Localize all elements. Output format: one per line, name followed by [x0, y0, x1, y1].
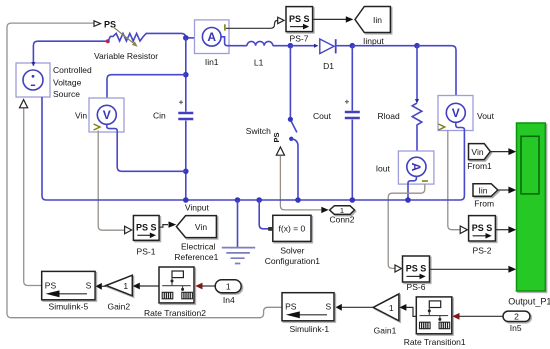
svg-text:PS-6: PS-6: [407, 282, 426, 292]
arrowhead Gain2 into Simulink-5: [96, 283, 102, 290]
svg-text:S: S: [86, 281, 92, 291]
wire bottom bus: [42, 97, 464, 200]
arrowhead RT2 into Gain2: [133, 283, 140, 290]
voltage sensor Vin: [89, 98, 124, 132]
label Switch: [246, 126, 271, 136]
wire L1 to switch node: [273, 45, 291, 47]
controlled voltage source U1 box: [16, 63, 50, 97]
label + polarity Cin: [179, 100, 183, 104]
label Vout: [477, 111, 495, 121]
wire Iinput node to Rload node: [352, 45, 417, 47]
rate transition Rate Transition1: [416, 297, 452, 334]
arrowhead From1 into scope: [508, 148, 516, 155]
converter PS-1: [133, 216, 159, 241]
svg-text:Rload: Rload: [378, 111, 400, 121]
wire Rload top: [416, 46, 418, 102]
label + polarity Cout: [345, 100, 349, 104]
capacitor Cout plates: [345, 112, 360, 118]
svg-text:PS: PS: [272, 132, 281, 142]
svg-text:S: S: [326, 302, 332, 312]
port Conn2: [330, 206, 355, 215]
capacitor Cin wire lower: [185, 121, 187, 200]
junction node Rload top: [414, 43, 420, 49]
arrow into CVS top: [31, 62, 35, 66]
wire Vin sensor bottom to Cin node: [107, 125, 186, 172]
svg-text:PS S: PS S: [406, 263, 427, 273]
ground Electrical Reference1: [222, 200, 255, 264]
resistor Rload zigzag: [412, 103, 422, 155]
arrow variable-resistor adjustment (diagonal): [113, 27, 138, 47]
label In4: [223, 295, 235, 305]
arrowhead into Conn2: [321, 207, 328, 213]
svg-text:Reference1: Reference1: [174, 252, 218, 262]
label PS-1: [137, 247, 156, 257]
port triangle PS input of Variable Resistor: [94, 21, 101, 27]
label Cin: [153, 111, 166, 121]
svg-text:PS S: PS S: [136, 223, 157, 233]
wire switch node to diode: [290, 45, 314, 47]
wire PS-6 to scope: [430, 268, 509, 270]
svg-text:From: From: [474, 199, 494, 209]
label Iinput: [363, 36, 384, 46]
voltage sensor Vout: [438, 96, 473, 131]
diode D1: [320, 39, 336, 54]
junction dot bus solver: [256, 197, 262, 203]
inductor L1: [247, 41, 273, 45]
svg-text:L1: L1: [254, 58, 264, 68]
current sensor Iout: [398, 151, 434, 184]
label Electrical Reference1: [174, 242, 218, 263]
svg-text:Variable Resistor: Variable Resistor: [94, 51, 158, 61]
svg-text:PS S: PS S: [472, 223, 493, 233]
wire Gain2 to Simulink-5: [102, 285, 107, 287]
label Gain2: [107, 302, 130, 312]
svg-text:Controlled: Controlled: [53, 65, 92, 75]
label Vinput: [185, 203, 210, 213]
block Simulink-1: [282, 293, 334, 321]
capacitor Cout wire upper: [351, 46, 353, 111]
port triangle PS input of PS-7: [278, 17, 284, 23]
label PS-7: [290, 33, 309, 43]
wire Vin measurement to PS-1: [98, 131, 124, 231]
svg-text:A: A: [207, 30, 216, 44]
wire From1 to scope: [490, 151, 508, 153]
goto tag Vin: [176, 216, 216, 238]
wire From to scope: [498, 189, 509, 191]
svg-text:Cout: Cout: [313, 111, 332, 121]
wire ammeter measurement to PS-7: [226, 20, 278, 28]
svg-text:Iin: Iin: [373, 15, 382, 25]
wire Iout bottom to bus: [408, 176, 416, 200]
label Rate Transition1: [404, 337, 466, 347]
wire Vin sensor top tap: [107, 75, 186, 103]
switch SW vertical wire: [289, 46, 291, 118]
wire switch PS to Conn2: [280, 156, 321, 210]
svg-text:A: A: [409, 163, 423, 172]
junction dot bus Vinput: [183, 197, 189, 203]
scope Output_P1: [517, 123, 546, 291]
gain Gain1: [373, 294, 399, 321]
label Output_P1: [508, 297, 550, 307]
junction node Iinput / Cout: [350, 43, 356, 49]
svg-text:1: 1: [226, 282, 231, 292]
svg-text:Vin: Vin: [75, 111, 87, 121]
goto tag Iin: [355, 7, 390, 33]
label In5: [510, 323, 522, 333]
svg-text:Simulink-5: Simulink-5: [49, 301, 89, 311]
label Controlled Voltage Source: [53, 65, 92, 99]
svg-text:Vout: Vout: [477, 111, 495, 121]
capacitor Cin wire upper: [185, 38, 187, 112]
svg-text:Vinput: Vinput: [185, 203, 210, 213]
node red marker variable resistor terminal: [106, 39, 110, 43]
svg-text:Voltage: Voltage: [53, 78, 82, 88]
svg-text:In5: In5: [510, 323, 522, 333]
label PS (switch port, rotated): [272, 132, 281, 142]
port triangle PS input of PS-2: [460, 226, 467, 234]
arrowhead into Vin goto: [169, 221, 177, 227]
arrowhead From into scope: [508, 187, 516, 194]
label Cout: [313, 111, 332, 121]
wire solver to bus: [259, 200, 269, 229]
svg-text:PS S: PS S: [289, 14, 310, 24]
svg-text:Electrical: Electrical: [181, 242, 216, 252]
inport In5: [503, 311, 530, 322]
label Simulink-5: [49, 301, 89, 311]
wire RT1 to Gain1: [406, 307, 416, 316]
wire PS feedback Simulink-1 to Variable Resistor (left/bottom routing): [7, 23, 282, 318]
arrowhead PS-6 into scope: [508, 266, 516, 273]
wire Vout measurement to PS-2: [448, 131, 460, 230]
svg-text:1: 1: [123, 281, 128, 291]
label Simulink-1: [289, 324, 329, 334]
port triangle PS input of PS-6: [395, 265, 402, 272]
wire Gain1 to Simulink-1: [342, 306, 374, 308]
arrowhead PS-2 into scope: [508, 226, 516, 233]
wire ammeter to L1: [229, 45, 247, 47]
svg-text:Source: Source: [53, 89, 80, 99]
junction dot bus switch: [295, 197, 301, 203]
svg-text:PS: PS: [285, 302, 297, 312]
svg-text:Cin: Cin: [153, 111, 166, 121]
junction dot at resistor/ammeter/Cin: [183, 35, 189, 41]
label PS-6: [407, 282, 426, 292]
svg-text:Configuration1: Configuration1: [265, 256, 321, 266]
svg-text:PS-1: PS-1: [137, 247, 156, 257]
wire Iout measurement to PS-6: [388, 184, 425, 268]
wire In5 to RT1: [459, 315, 503, 317]
arrow into ammeter: [198, 36, 203, 40]
label Rload: [378, 111, 400, 121]
gain Gain2: [106, 275, 132, 296]
junction dot Vin-bottom tap: [183, 169, 189, 175]
resistor Variable Resistor zigzag: [108, 33, 186, 41]
svg-text:Simulink-1: Simulink-1: [289, 324, 329, 334]
wire PS-2 to scope: [495, 229, 508, 231]
svg-text:Iout: Iout: [376, 164, 391, 174]
wire PS-7 to Iin goto: [313, 18, 346, 20]
svg-text:PS: PS: [45, 281, 57, 291]
current sensor Iin1: [195, 20, 230, 54]
svg-text:Rate Transition2: Rate Transition2: [144, 308, 206, 318]
rate transition Rate Transition2: [159, 267, 194, 303]
junction dot bus ground: [235, 197, 241, 203]
label From1: [467, 161, 492, 171]
svg-text:f(x) = 0: f(x) = 0: [279, 224, 306, 234]
wire PS Simulink-5 to Controlled Voltage Source: [24, 108, 42, 285]
arrowhead RT1 into Gain1: [399, 304, 406, 311]
arrowhead In4 into RT2: [195, 283, 202, 290]
wire switch to bottom bus: [291, 139, 298, 200]
port triangle PS input of CVS: [20, 100, 28, 108]
converter PS-6: [403, 256, 430, 282]
wire CVS top to variable resistor: [33, 41, 107, 65]
junction node switch top: [288, 43, 294, 49]
svg-text:PS-2: PS-2: [473, 245, 492, 255]
arrow into Rload: [415, 99, 419, 103]
svg-text:1: 1: [389, 303, 394, 313]
svg-text:D1: D1: [323, 61, 334, 71]
port triangle PS input of switch: [276, 147, 284, 155]
port triangle PS input of PS-1: [125, 226, 132, 234]
label Rate Transition2: [144, 308, 206, 318]
label Gain1: [374, 326, 397, 336]
label L1: [254, 58, 264, 68]
arrow into Vin top: [105, 99, 109, 103]
svg-text:Gain1: Gain1: [374, 326, 397, 336]
converter PS-2: [469, 216, 496, 241]
label Solver Configuration1: [265, 246, 321, 266]
arrowhead Gain1 into Simulink-1: [336, 304, 342, 311]
arrowhead In5 into RT1: [452, 313, 459, 320]
inport In4: [215, 280, 241, 293]
label From: [474, 199, 494, 209]
svg-text:Vin: Vin: [195, 222, 207, 232]
wire node to ammeter input: [186, 37, 201, 39]
wire PS-1 to Vin goto: [159, 225, 168, 228]
svg-text:In4: In4: [223, 295, 235, 305]
wire In4 to RT2: [202, 285, 215, 287]
svg-text:V: V: [452, 106, 460, 120]
svg-text:Vin: Vin: [471, 147, 483, 157]
label PS-2: [473, 245, 492, 255]
arrow into Iout: [414, 153, 418, 157]
junction dot bus Cout: [350, 197, 356, 203]
svg-text:Conn2: Conn2: [329, 215, 354, 225]
label Conn2: [329, 215, 354, 225]
capacitor Cin plates: [178, 113, 193, 119]
switch top contact: [288, 117, 293, 122]
label Vin (sensor): [75, 111, 87, 121]
junction dot bus Iout: [405, 197, 411, 203]
label PS (variable resistor port): [104, 19, 116, 29]
label Iin1: [205, 57, 219, 67]
switch arm: [291, 121, 297, 132]
svg-text:Rate Transition1: Rate Transition1: [404, 337, 466, 347]
svg-text:Iinput: Iinput: [363, 36, 384, 46]
wire diode to Iinput node: [337, 45, 353, 47]
label D1: [323, 61, 334, 71]
arrow into Vout top: [454, 99, 458, 103]
svg-text:PS-7: PS-7: [290, 33, 309, 43]
svg-text:2: 2: [514, 312, 519, 322]
converter PS-7: [286, 7, 313, 32]
from tag Vin (From1): [469, 144, 491, 160]
junction dot Vin-top tap: [183, 72, 189, 78]
svg-text:Gain2: Gain2: [107, 302, 130, 312]
svg-text:From1: From1: [467, 161, 492, 171]
svg-text:Iin: Iin: [479, 185, 488, 195]
svg-text:Output_P1: Output_P1: [508, 297, 550, 307]
label Iout: [376, 164, 391, 174]
block Simulink-5: [42, 271, 95, 299]
svg-text:Iin1: Iin1: [205, 57, 219, 67]
label Variable Resistor: [94, 51, 158, 61]
svg-text:V: V: [103, 108, 111, 122]
wire RT2 to Gain2: [140, 285, 160, 287]
arrow into diode: [314, 44, 319, 48]
svg-text:Switch: Switch: [246, 126, 271, 136]
wire top node to Vout sensor: [417, 46, 456, 103]
from tag Iin (From): [473, 184, 498, 197]
switch bottom contact: [289, 137, 293, 141]
arrowhead into Iin goto: [346, 16, 354, 22]
capacitor Cout wire lower: [351, 120, 353, 200]
solver configuration block f(x)=0: [268, 215, 311, 241]
svg-text:Solver: Solver: [280, 246, 304, 256]
